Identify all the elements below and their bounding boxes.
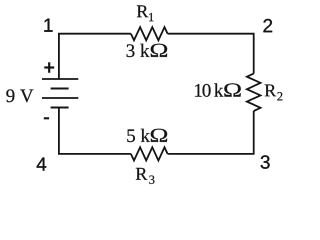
value label 10 kΩ for R2 bbox=[195, 83, 241, 96]
wire: R2 down to node 3 corner, then to R3 bbox=[168, 111, 254, 154]
node 2 label bbox=[263, 19, 272, 32]
battery - polarity mark bbox=[44, 117, 49, 119]
value label 3 kΩ for R1 bbox=[127, 44, 168, 57]
wire: battery - plate down to node 4 corner, then to R3 bbox=[59, 108, 131, 154]
label R2 (reference designator) bbox=[265, 85, 283, 101]
node 4 label bbox=[37, 158, 47, 171]
wire: battery + plate up to node 1 corner, then to R1 bbox=[59, 34, 131, 79]
label R1 (reference designator) bbox=[137, 5, 154, 21]
node 1 label bbox=[44, 19, 52, 32]
battery B1, 9 V (two-cell plates) bbox=[42, 79, 78, 108]
value label 9 V for battery bbox=[6, 89, 33, 102]
resistor R2 (vertical zigzag) bbox=[247, 74, 261, 111]
value label 5 kΩ for R3 bbox=[127, 129, 167, 142]
battery + polarity mark bbox=[44, 62, 54, 73]
resistor R1 (zigzag) bbox=[131, 27, 168, 40]
resistor R3 (zigzag) bbox=[131, 147, 168, 160]
node 3 label bbox=[261, 155, 270, 168]
wire: R1 to node 2 corner, down toward R2 bbox=[168, 34, 254, 74]
label R3 (reference designator) bbox=[136, 168, 155, 184]
